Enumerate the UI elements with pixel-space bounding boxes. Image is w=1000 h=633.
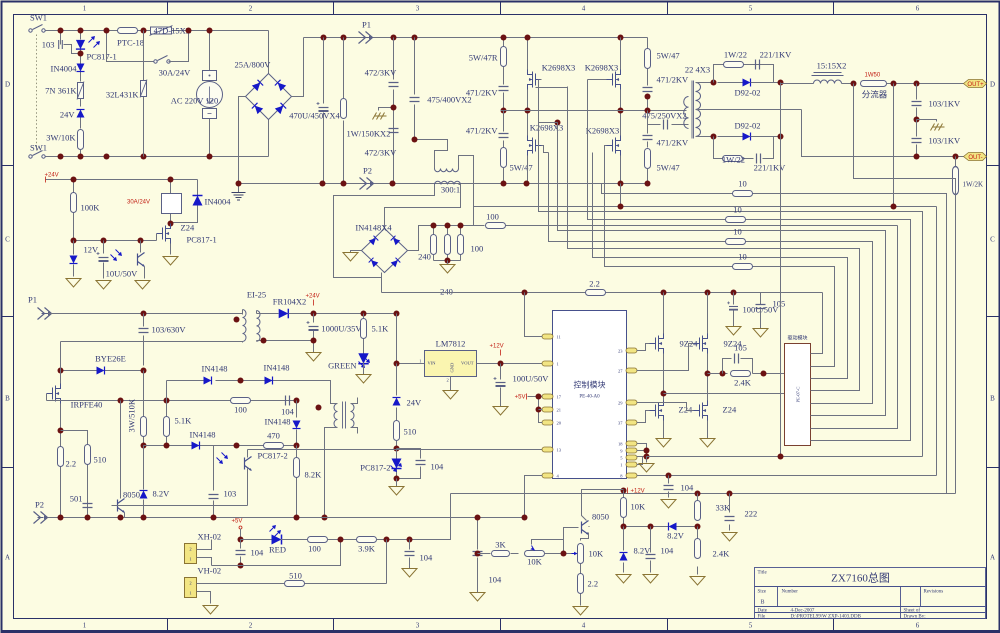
svg-text:Drawn By:: Drawn By:: [904, 615, 926, 620]
svg-text:4: 4: [582, 622, 586, 630]
svg-text:B: B: [761, 600, 765, 606]
svg-text:501: 501: [70, 494, 83, 504]
resistor 33K: [697, 494, 699, 529]
feedback wire y292 corner: [811, 293, 823, 354]
wire x663 drop to 9Z24: [663, 293, 665, 334]
optocoupler PC817-1 transistor: [140, 241, 142, 253]
capacitor 104 xh: [240, 540, 242, 566]
resistor 5.1K: [363, 314, 365, 355]
svg-text:A: A: [5, 554, 10, 562]
emitter into resistor chain: [581, 533, 589, 541]
svg-text:VOUT: VOUT: [461, 361, 474, 366]
svg-text:D92-02: D92-02: [735, 88, 761, 98]
wire gate rail: [74, 234, 157, 241]
svg-text:PE-40-A0: PE-40-A0: [579, 395, 600, 400]
svg-text:104: 104: [681, 483, 695, 493]
svg-text:103: 103: [224, 489, 237, 499]
resistor 3.9K: [357, 537, 377, 543]
sense wire y225 corner: [811, 226, 898, 429]
diode IN4148 vertical: [296, 401, 298, 446]
diode IN4148 b: [265, 377, 273, 385]
svg-text:11: 11: [557, 335, 561, 340]
svg-text:PE-07-C: PE-07-C: [796, 387, 801, 403]
svg-text:1: 1: [83, 622, 87, 630]
zener 8.2V vertical: [623, 527, 625, 573]
zone ticks top: [168, 2, 834, 15]
capacitor 471/2KV x503: [499, 87, 509, 91]
svg-text:10: 10: [738, 179, 747, 189]
svg-text:2.4K: 2.4K: [713, 549, 731, 559]
svg-text:VIN: VIN: [428, 361, 437, 366]
svg-text:475/250VX2: 475/250VX2: [642, 111, 686, 121]
pin 1: [542, 361, 553, 366]
svg-text:105: 105: [773, 299, 786, 309]
svg-text:13: 13: [557, 448, 562, 453]
burden resistor 240 b: [447, 226, 449, 261]
svg-text:1: 1: [189, 591, 191, 596]
svg-text:+24V: +24V: [45, 173, 59, 179]
optocoupler PC817-2 transistor: [247, 450, 249, 458]
ground of LM7812: [450, 377, 452, 391]
svg-text:10: 10: [738, 252, 747, 262]
svg-text:1W/150KX2: 1W/150KX2: [347, 129, 391, 139]
capacitor 103/1KV lower: [916, 120, 918, 157]
snubber chain x503: resistor 5W/47R: [503, 38, 505, 85]
resistor 1W/2K: [955, 157, 957, 494]
zone ticks left: [2, 166, 14, 468]
diode D92-02 bottom: [743, 133, 751, 141]
capacitor 100U/50V left: [500, 364, 502, 407]
svg-text:7N 361K: 7N 361K: [45, 86, 77, 96]
svg-text:32L431K: 32L431K: [106, 90, 139, 100]
capacitor 100U/50V: [733, 293, 735, 327]
svg-text:104: 104: [251, 548, 265, 558]
svg-text:104: 104: [420, 553, 434, 563]
sense wire y206 corner: [923, 207, 937, 476]
transistor 8050: [120, 401, 122, 499]
svg-text:100: 100: [308, 544, 321, 554]
gate drive wire G with resistor 10: [605, 146, 835, 367]
svg-text:GND: GND: [450, 362, 455, 372]
earth ground on P2 rail: [238, 184, 240, 193]
resistor 470: [264, 443, 284, 449]
pin 4 wire to P2 rail: [525, 476, 543, 518]
capacitor 471/2KV x647: [643, 88, 653, 92]
zener 8.2V on x143: [143, 446, 145, 518]
collector wire: [582, 490, 624, 521]
mosfet K2698X3 upper-right: [607, 70, 621, 90]
svg-text:4: 4: [582, 5, 586, 13]
svg-text:510: 510: [94, 455, 107, 465]
svg-text:29: 29: [618, 401, 623, 406]
svg-text:8050: 8050: [123, 490, 140, 500]
gate drive wire F: [593, 153, 848, 379]
zener 24V: [396, 364, 398, 421]
svg-text:+24V: +24V: [306, 294, 320, 300]
title block frame: [755, 568, 986, 619]
sense wire from shunt left: [854, 84, 956, 494]
svg-text:分流器: 分流器: [862, 90, 888, 100]
svg-text:10: 10: [733, 227, 742, 237]
svg-text:10K: 10K: [631, 502, 647, 512]
svg-text:PTC-18: PTC-18: [117, 38, 144, 48]
svg-text:1: 1: [83, 5, 87, 13]
port P1 left: [38, 308, 52, 320]
svg-text:BYE26E: BYE26E: [95, 354, 126, 364]
emitter resistor 10K: [578, 544, 584, 564]
outer border: [1, 1, 3, 633]
pin 13: [542, 447, 553, 452]
svg-text:10U/50V: 10U/50V: [106, 269, 139, 279]
regulator LM7812: [425, 351, 477, 377]
wire bypass to 30A/24V switch: [107, 31, 154, 62]
wire sense net y225: [506, 225, 898, 227]
resistor 3W/10K: [78, 130, 84, 150]
wire 24V to LM7812: [397, 314, 425, 364]
svg-text:27: 27: [618, 369, 623, 374]
opto LED PC817-1: [80, 31, 82, 63]
svg-text:SW1: SW1: [30, 143, 47, 153]
svg-text:100: 100: [234, 405, 247, 415]
wire P1 rail: [304, 37, 648, 39]
junction dots AC rails: [58, 28, 64, 34]
svg-text:D: D: [990, 81, 995, 89]
svg-text:XH-02: XH-02: [198, 532, 222, 542]
capacitor 475/250VX2: [648, 124, 687, 126]
svg-text:12V: 12V: [84, 245, 100, 255]
resistor PTC-18: [118, 28, 138, 34]
control module box: [553, 311, 627, 479]
ground under burden: [447, 261, 449, 265]
svg-text:10: 10: [733, 205, 742, 215]
svg-text:103/630V: 103/630V: [152, 325, 187, 335]
svg-text:2: 2: [249, 622, 253, 630]
resistor 1W/150KX2: [343, 38, 345, 184]
wire DC+ output: [781, 83, 814, 85]
svg-text:104: 104: [489, 575, 503, 585]
ground Z24 a: [656, 439, 671, 448]
svg-text:33K: 33K: [716, 503, 732, 513]
svg-text:471/2KV: 471/2KV: [466, 88, 499, 98]
capacitor 222: [729, 494, 731, 531]
svg-text:OUT-: OUT-: [968, 155, 982, 161]
svg-text:3: 3: [416, 5, 420, 13]
chain x647: resistor 5W/47: [647, 38, 649, 86]
port P2: [360, 178, 374, 190]
snubber bottom capacitor 221/1KV: [757, 154, 761, 164]
svg-text:Date: Date: [758, 609, 768, 614]
capacitor 103: [61, 31, 79, 54]
resistor 2.2: [586, 290, 606, 296]
relay 30A/24V: [170, 180, 172, 224]
svg-text:IN4148: IN4148: [190, 430, 216, 440]
pin 11: [542, 334, 553, 339]
P2 bottom rail: [34, 512, 48, 524]
resistor 510 low: [305, 540, 387, 584]
svg-text:P1: P1: [28, 295, 37, 305]
LED GREEN: [358, 353, 368, 363]
capacitor 472/3KV lower: [389, 129, 399, 133]
svg-text:20: 20: [557, 421, 562, 426]
svg-text:K2698X3: K2698X3: [530, 123, 564, 133]
wire opto collector to pin13 net: [248, 449, 543, 451]
capacitor 1000U/35V: [313, 314, 315, 353]
net 2.2 wire y292: [382, 292, 823, 294]
wire 24V aux rail: [314, 313, 398, 315]
bridge IN4148X4: [362, 229, 408, 273]
secondary bottom tap: [696, 136, 714, 138]
flag OUT-: [964, 153, 987, 161]
resistor 5.1K: [166, 401, 168, 446]
capacitor 470U/450VX4: [323, 38, 325, 184]
mosfet Z24 b: [694, 401, 708, 421]
zener 24V: [77, 110, 85, 118]
switch SW1 bottom: [29, 151, 45, 159]
svg-text:Sheet of: Sheet of: [904, 609, 921, 614]
mosfet Z24: [157, 224, 171, 244]
AC fan motor AC 220V 120: [209, 31, 211, 157]
wire bridge out to burden resistors: [408, 226, 485, 251]
svg-text:8.2V: 8.2V: [153, 489, 171, 499]
svg-text:+5V: +5V: [515, 395, 526, 401]
rectifier sense drop x780: [780, 137, 782, 457]
svg-text:22 4X3: 22 4X3: [685, 65, 710, 75]
svg-text:472/3KV: 472/3KV: [365, 68, 398, 78]
svg-text:1W50: 1W50: [865, 73, 881, 79]
junction dots P2 rail: [320, 181, 326, 187]
svg-text:FR104X2: FR104X2: [273, 297, 307, 307]
svg-text:C: C: [5, 236, 10, 244]
wire CT primary out: [459, 156, 474, 226]
junction dots P1 rail: [321, 35, 327, 41]
resistor 2.2: [580, 564, 582, 606]
wire top link to EI-25: [61, 341, 243, 343]
capacitor 472/3KV upper: [393, 38, 395, 184]
resistor 2.2: [60, 431, 62, 518]
wire y445: [144, 445, 297, 447]
resistor 8.2K: [296, 446, 298, 518]
gate drive wire C: [558, 123, 886, 416]
svg-text:1: 1: [189, 557, 191, 562]
resistor 3W/510K: [143, 371, 145, 446]
resistor 5W/47 lower x647: [645, 149, 651, 169]
resistor 100K: [73, 180, 75, 241]
mosfet 9Z24 a: [650, 334, 664, 354]
diode FR104X2: [279, 309, 289, 319]
+5V supply to pins 17/21/20: [528, 397, 543, 423]
svg-text:1W/22: 1W/22: [722, 155, 745, 165]
svg-text:6: 6: [916, 622, 920, 630]
svg-text:100: 100: [471, 244, 484, 254]
wire y493 feedback: [451, 493, 956, 495]
capacitor 104 on pin8 line: [666, 473, 672, 479]
svg-text:471/2KV: 471/2KV: [466, 126, 499, 136]
mosfet Z24 a: [650, 401, 664, 421]
ground Z24 b: [700, 439, 715, 448]
svg-text:510: 510: [404, 427, 417, 437]
ground: [66, 279, 81, 288]
svg-text:221/1KV: 221/1KV: [760, 50, 793, 60]
diode D92-02 top: [743, 79, 751, 87]
svg-text:8.2V: 8.2V: [667, 531, 685, 541]
output wire y526: [589, 526, 669, 528]
svg-text:VH-02: VH-02: [198, 566, 222, 576]
wire AC bottom rail: [46, 156, 269, 158]
resistor 3K: [478, 553, 519, 555]
inductor 15:15X2: [814, 80, 842, 84]
bridge rectifier 25A/800V: [246, 74, 292, 120]
svg-text:100: 100: [486, 212, 499, 222]
gate drive wire A: [539, 80, 923, 457]
svg-text:2.4K: 2.4K: [734, 378, 752, 388]
diode IN4004: [80, 63, 82, 82]
svg-text:105: 105: [734, 343, 747, 353]
wire OUT- line: [802, 110, 964, 157]
ground: [163, 257, 178, 266]
gate wire: [47, 394, 297, 401]
ground: [394, 476, 400, 482]
wire opto emitter down to base rail: [247, 469, 249, 506]
capacitor 104: [397, 449, 421, 479]
snubber top capacitor 221/1KV: [756, 60, 760, 70]
svg-text:+5V: +5V: [232, 519, 243, 525]
svg-text:GREEN: GREEN: [328, 361, 356, 371]
svg-text:1W/2K: 1W/2K: [963, 181, 984, 189]
svg-text:AC 220V 120: AC 220V 120: [171, 96, 219, 106]
svg-text:471/2KV: 471/2KV: [657, 75, 690, 85]
chassis ground: [917, 120, 937, 122]
wire bridge DC- to P2 rail: [239, 97, 246, 184]
svg-text:P1: P1: [362, 20, 371, 30]
capacitor 105: [723, 359, 753, 374]
svg-text:2: 2: [189, 547, 191, 552]
+12V node: [621, 488, 627, 494]
ground: [96, 281, 111, 290]
svg-text:25A/800V: 25A/800V: [235, 60, 272, 70]
wire bridge bottom drop: [381, 273, 383, 293]
chassis ground: [379, 108, 394, 111]
wire bridge DC+ up to P1 rail: [292, 38, 304, 97]
svg-text:PC817-2: PC817-2: [258, 451, 288, 461]
resistor 100: [231, 398, 251, 404]
gang dotted link: [36, 35, 38, 151]
svg-text:1: 1: [620, 463, 622, 468]
svg-text:24V: 24V: [60, 110, 76, 120]
snubber top: resistor 1W/22: [714, 65, 774, 83]
svg-text:100U/50V: 100U/50V: [513, 374, 550, 384]
svg-text:Title: Title: [758, 571, 768, 576]
svg-text:5W/47: 5W/47: [657, 163, 680, 173]
svg-text:24V: 24V: [407, 398, 423, 408]
svg-text:IN4148: IN4148: [202, 364, 228, 374]
diode IN4148 a: [167, 381, 331, 404]
svg-text:5.1K: 5.1K: [372, 324, 390, 334]
rectifier output join: [780, 83, 782, 137]
svg-text:Number: Number: [782, 590, 799, 595]
svg-text:IN4148: IN4148: [264, 363, 290, 373]
svg-text:104: 104: [431, 462, 445, 472]
switch 30A/24V: [154, 56, 170, 64]
sense wire y193 with resistor 10: [602, 184, 947, 494]
switch SW1 top: [29, 25, 45, 33]
pins 18/9/5 cluster joined: [637, 444, 647, 465]
capacitor 103/1KV upper: [916, 84, 918, 120]
svg-text:3.9K: 3.9K: [358, 544, 376, 554]
diode 8.2V: [669, 523, 677, 531]
ground at bridge left: [351, 251, 362, 253]
svg-text:470U/450VX4: 470U/450VX4: [289, 111, 340, 121]
wire 9Z24b source down: [707, 354, 709, 403]
gate drive wire D with resistor 10: [549, 153, 873, 404]
svg-text:LM7812: LM7812: [436, 339, 466, 349]
pot 10K: [525, 551, 545, 557]
svg-text:103/1KV: 103/1KV: [929, 136, 962, 146]
capacitor 475/400VX2: [414, 38, 416, 140]
resistor 2.4K: [697, 527, 699, 575]
LED RED: [241, 539, 273, 541]
svg-text:2.2: 2.2: [588, 579, 599, 589]
wire mid rail y110: [501, 110, 687, 112]
svg-text:2: 2: [189, 581, 191, 586]
wire y373 to driver module: [708, 373, 785, 375]
svg-text:Z24: Z24: [181, 223, 195, 233]
svg-text:23: 23: [618, 349, 623, 354]
svg-text:控制模块: 控制模块: [574, 380, 606, 390]
wire AC top rail: [46, 30, 269, 32]
burden resistor 240 a: [433, 226, 435, 261]
svg-text:D:\PROTEL99\W ZXP-1403.DDB: D:\PROTEL99\W ZXP-1403.DDB: [791, 615, 862, 620]
wire P1 aux rail: [48, 313, 243, 315]
svg-text:5.1K: 5.1K: [175, 416, 193, 426]
svg-text:PC817-1: PC817-1: [87, 52, 117, 62]
svg-text:3W/10K: 3W/10K: [46, 133, 76, 143]
diode BYE26E: [61, 370, 144, 372]
snubber bottom: resistor 1W/22: [714, 137, 774, 159]
svg-text:8050: 8050: [592, 512, 609, 522]
mosfet K2698X3 lower-right: [607, 136, 621, 156]
capacitor 501: [83, 504, 93, 508]
svg-text:10K: 10K: [527, 557, 543, 567]
pin 21: [542, 407, 553, 412]
P2 rail wire: [239, 183, 649, 185]
secondary return wire: [257, 340, 314, 342]
right pins: [626, 348, 637, 353]
svg-text:103: 103: [42, 40, 55, 50]
resistor 100 series: [486, 223, 506, 229]
svg-text:File: File: [758, 615, 767, 620]
shunt resistor: [861, 81, 887, 87]
svg-text:RED: RED: [269, 545, 286, 555]
svg-text:B: B: [5, 395, 10, 403]
transistor 8050: [582, 521, 589, 535]
svg-text:Z24: Z24: [723, 405, 737, 415]
svg-text:30A/24V: 30A/24V: [159, 68, 192, 78]
wire CT sense line: [474, 206, 937, 208]
pin 17: [542, 394, 553, 399]
wire AC to bridge bottom: [268, 120, 270, 157]
base wire: [564, 528, 579, 540]
port P1: [359, 32, 373, 44]
svg-text:3W/510K: 3W/510K: [127, 398, 137, 432]
svg-text:P2: P2: [363, 166, 372, 176]
secondary center tap: [696, 109, 802, 111]
flag OUT+: [964, 80, 987, 88]
svg-text:OUT+: OUT+: [967, 82, 984, 88]
opto LED PC817-2: [396, 449, 398, 479]
wire x620 vertical: [620, 38, 622, 184]
pin 4: [542, 473, 553, 478]
capacitor 105: [760, 293, 762, 329]
